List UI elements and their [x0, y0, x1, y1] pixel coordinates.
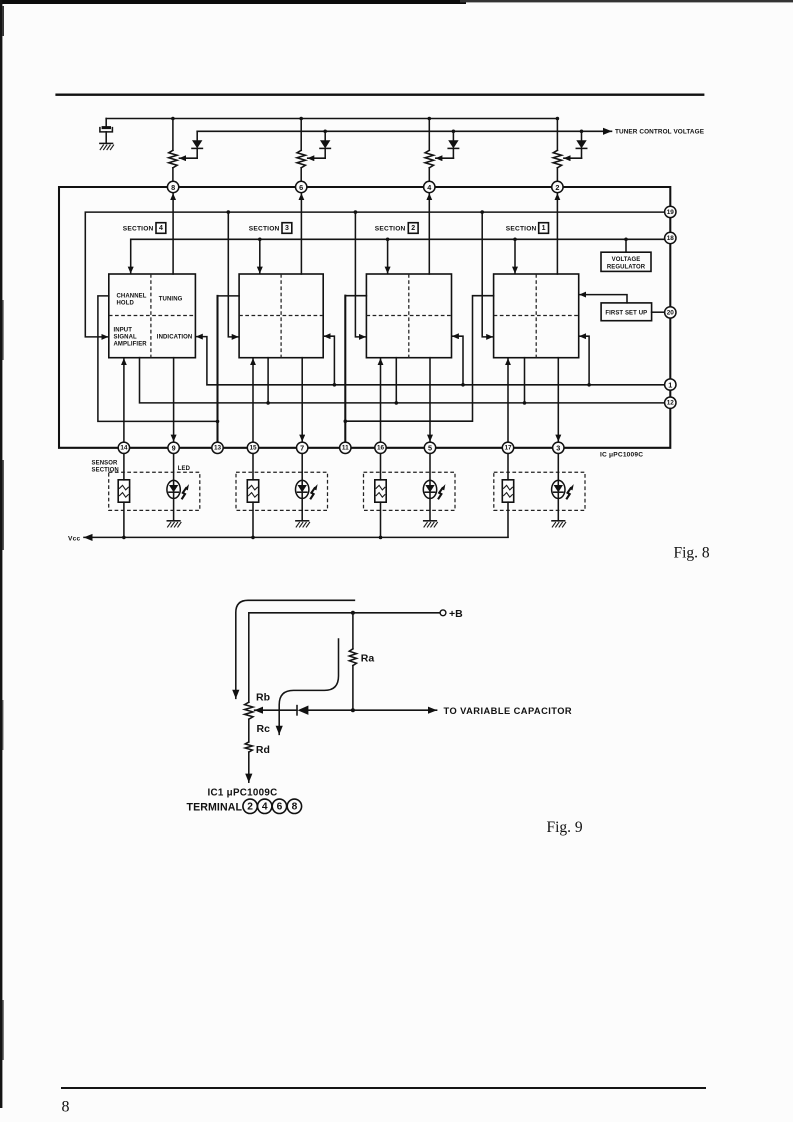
wire: diode to pot wiper arrow — [436, 157, 454, 159]
svg-text:Fig. 9: Fig. 9 — [547, 819, 583, 836]
wire: pin 16 to sensor — [380, 454, 382, 480]
pin 13 — [212, 442, 223, 453]
wire: diode to pot wiper arrow — [179, 157, 197, 159]
wire: riser into section right edge — [324, 336, 334, 385]
wire: first-set-up to section 1 — [580, 295, 627, 303]
svg-text:18: 18 — [667, 235, 675, 242]
svg-text:FIRST SET UP: FIRST SET UP — [605, 311, 647, 317]
wire: section 2 output up to pin 4 — [428, 194, 430, 274]
wire: section 2 down to pin 5 — [429, 358, 431, 442]
functional block: section 2 — [366, 274, 451, 358]
wire: section bottom to pin12 bus x=524.5 — [524, 358, 526, 403]
node: bus junction at x=172.9 — [171, 117, 175, 121]
IC mPC1009C outline box — [59, 187, 670, 448]
svg-text:SECTION: SECTION — [92, 467, 119, 473]
wire: pin19 bus (top internal rail) — [85, 212, 670, 337]
resistor (tuning pot section 3) — [300, 119, 302, 151]
node: bus junction at x=453.4 — [452, 130, 456, 134]
wire: Vcc rail — [84, 536, 508, 538]
wire: pin18 bus (second internal rail) — [131, 239, 671, 273]
wire: section 3 down to pin 7 — [301, 358, 303, 442]
node: pin18 rail junction x=515.0 — [513, 238, 517, 242]
fig9 wire: down to terminals — [248, 752, 250, 782]
wire: LED to ground — [557, 498, 559, 520]
svg-text:SIGNAL: SIGNAL — [114, 335, 138, 341]
fig9 terminal circle 6 — [272, 799, 286, 813]
diode D4 — [196, 131, 198, 140]
node: pin18 rail junction x=387.6 — [386, 238, 390, 242]
svg-text:HOLD: HOLD — [117, 300, 135, 306]
ground under LED 4 — [167, 520, 180, 522]
resistor (tuning pot section 4) — [172, 119, 174, 151]
fig9 wire: +B feed — [249, 613, 440, 702]
fig9 wire: outer feed with down arrow — [236, 600, 355, 698]
svg-text:19: 19 — [667, 209, 675, 216]
pin 20 — [665, 307, 676, 318]
svg-text:1: 1 — [542, 225, 546, 232]
dashed quadrant dividers section 1 — [494, 274, 579, 358]
fig9 wire: S-curve crossover with down arrow — [279, 639, 338, 734]
svg-text:TUNER CONTROL VOLTAGE: TUNER CONTROL VOLTAGE — [615, 129, 705, 136]
wire: section 1 output up to pin 2 — [556, 194, 558, 274]
ground under capacitor — [100, 142, 113, 144]
svg-text:3: 3 — [556, 444, 560, 453]
svg-text:IC μPC1009C: IC μPC1009C — [600, 452, 643, 459]
dashed quadrant dividers section 3 — [239, 274, 323, 358]
svg-text:2: 2 — [247, 801, 253, 812]
pin 3 — [553, 442, 564, 453]
wire: rail droppers into section tops — [259, 239, 261, 273]
pin 12 — [665, 397, 676, 408]
svg-text:4: 4 — [262, 801, 268, 812]
dashed sensor/LED group box 2 — [364, 472, 456, 510]
svg-text:Vcc: Vcc — [68, 535, 80, 542]
svg-text:SECTION: SECTION — [249, 225, 280, 232]
node: Vcc junction x=380.5 — [379, 536, 383, 540]
wire: diode to pot wiper arrow — [308, 157, 326, 159]
ground under LED 3 — [296, 520, 309, 522]
wire: pin11 net to section 1 — [345, 296, 493, 422]
LED 2 — [423, 480, 436, 498]
resistor (tuning pot section 1) — [556, 119, 558, 151]
wire: pin 17 to sensor — [507, 454, 509, 480]
dashed sensor/LED group box 3 — [236, 472, 328, 510]
node: pin1 bus junction x=589.1 — [587, 383, 591, 387]
svg-text:9: 9 — [172, 444, 176, 453]
fig9 wire Rb to Rd — [248, 719, 250, 742]
photo sensor 3 — [247, 480, 258, 502]
pin 15 — [247, 442, 258, 453]
svg-text:Rc: Rc — [257, 723, 271, 735]
ground under LED 2 — [424, 520, 437, 522]
svg-text:2: 2 — [411, 225, 415, 232]
svg-text:CHANNEL: CHANNEL — [117, 293, 147, 299]
wire: section bottom to pin12 bus x=396.3 — [395, 358, 397, 403]
svg-text:14: 14 — [120, 445, 128, 452]
wire: sensor to Vcc rail — [252, 502, 254, 537]
svg-text:4: 4 — [159, 225, 163, 232]
node: pin19 rail junction x=355.4 — [354, 210, 358, 214]
wire: section 3 output up to pin 6 — [300, 194, 302, 274]
svg-text:3: 3 — [285, 225, 289, 232]
pin 2 — [552, 181, 563, 192]
svg-text:SECTION: SECTION — [123, 225, 154, 232]
node: pin19 rail junction x=228.3 — [227, 210, 231, 214]
scan artifact: top edge bar — [0, 0, 466, 4]
svg-text:6: 6 — [277, 801, 283, 812]
pin 7 — [297, 442, 308, 453]
wire: section 4 down to pin 9 — [173, 358, 175, 442]
wire: pin 15 to sensor — [252, 454, 254, 480]
svg-text:Fig. 8: Fig. 8 — [674, 545, 710, 562]
dashed quadrant dividers section 4 — [109, 274, 196, 358]
node: Vcc junction x=123.9 — [122, 536, 126, 540]
wire: pin 14 to sensor — [123, 454, 125, 480]
node: bus junction at x=429.3 — [428, 117, 432, 121]
block: FIRST SET UP — [601, 303, 652, 321]
svg-text:TUNING: TUNING — [159, 296, 183, 302]
fig9 wiper arrow — [255, 709, 297, 711]
capacitor C (tuning voltage filter) — [105, 119, 107, 128]
pin 11 — [340, 442, 351, 453]
block: VOLTAGE REGULATOR — [601, 252, 651, 271]
pin 18 — [665, 232, 676, 243]
fig9 node: Ra tap — [351, 611, 355, 615]
photo sensor 1 — [502, 480, 513, 502]
fig9 resistor Rd — [245, 742, 252, 752]
svg-text:20: 20 — [667, 309, 675, 316]
wire: tuning supply bus (upper) — [106, 118, 557, 120]
wire: pin 3 to LED — [557, 454, 559, 481]
wire: pin 5 to LED — [429, 454, 431, 481]
svg-text:TERMINAL: TERMINAL — [187, 801, 243, 813]
diode D1 — [581, 131, 583, 140]
dashed sensor/LED group box 1 — [494, 472, 585, 510]
svg-text:Ra: Ra — [361, 652, 375, 664]
wire: sensor to Vcc rail — [380, 502, 382, 537]
LED flash arrow — [438, 484, 445, 499]
fig9 terminal circle 2 — [243, 799, 257, 813]
wire: sensor to Vcc rail — [507, 502, 509, 537]
wire: dropper to voltage regulator — [625, 239, 627, 252]
functional block: section 4 — [109, 274, 196, 358]
wire: pin 16 up into section 2 — [380, 359, 382, 442]
wire: LED to ground — [173, 498, 175, 520]
fig9 wire: to variable capacitor — [308, 709, 436, 711]
svg-text:17: 17 — [504, 445, 512, 452]
pin 17 — [502, 442, 513, 453]
photo sensor 4 — [118, 480, 129, 502]
pin 19 — [665, 206, 676, 217]
dashed quadrant dividers section 2 — [366, 274, 451, 358]
LED flash arrow — [310, 484, 317, 499]
wire: pin13 vertical — [216, 296, 218, 442]
wire: pin11 stub into section 2 — [345, 295, 366, 297]
LED flash arrow — [182, 484, 189, 499]
pin 4 — [424, 181, 435, 192]
wire: section bottom to pin12 bus x=268.1 — [267, 358, 269, 403]
scan artifact: left edge strip — [0, 0, 2, 1108]
pin 9 — [168, 442, 179, 453]
wire: riser into section right edge — [452, 336, 463, 385]
bottom rule — [61, 1087, 706, 1089]
svg-text:6: 6 — [299, 183, 303, 192]
svg-text:12: 12 — [667, 400, 675, 407]
svg-text:13: 13 — [214, 445, 222, 452]
svg-text:11: 11 — [342, 445, 349, 452]
wire: pin13 net riser to section 4 — [98, 296, 218, 422]
ground under LED 1 — [552, 520, 565, 522]
svg-text:2: 2 — [555, 183, 559, 192]
svg-text:+B: +B — [449, 608, 463, 620]
wire: pin 9 to LED — [173, 454, 175, 481]
wire: pin 7 to LED — [301, 454, 303, 481]
resistor (tuning pot section 2) — [428, 119, 430, 151]
wire: riser into section right edge — [580, 336, 590, 385]
wire: pin13 stub into section 3 — [218, 295, 240, 297]
LED flash arrow — [566, 484, 573, 499]
wire: LED to ground — [429, 498, 431, 520]
svg-text:16: 16 — [377, 445, 385, 452]
wire: pin 15 up into section 3 — [252, 359, 254, 442]
wire: pin1 indication bus — [196, 337, 664, 385]
wire: pin11 vertical — [344, 296, 346, 442]
svg-text:7: 7 — [300, 444, 304, 453]
pin 1 — [665, 379, 676, 390]
pin 6 — [296, 181, 307, 192]
svg-text:SENSOR: SENSOR — [92, 460, 119, 466]
svg-text:8: 8 — [171, 183, 175, 192]
svg-text:15: 15 — [249, 445, 257, 452]
fig9 terminal +B — [440, 610, 446, 616]
svg-text:Rd: Rd — [256, 744, 270, 756]
wire: diode to pot wiper arrow — [564, 157, 582, 159]
photo sensor 2 — [375, 480, 386, 502]
node: pin19 rail junction x=482.2 — [480, 210, 484, 214]
node: pin1 bus junction x=334.4 — [333, 383, 337, 387]
LED 3 — [296, 480, 309, 498]
fig9 resistor Ra — [352, 613, 354, 649]
svg-text:LED: LED — [178, 466, 191, 472]
node: pin18 rail junction x=626.0 — [624, 238, 628, 242]
svg-text:INPUT: INPUT — [114, 328, 133, 334]
wire: tuner control voltage bus (lower) — [197, 130, 611, 132]
svg-text:IC1 μPC1009C: IC1 μPC1009C — [208, 787, 278, 798]
fig9 potentiometer Rb — [245, 702, 253, 719]
fig9 diode (to variable capacitor) — [296, 706, 298, 715]
functional block: section 3 — [239, 274, 323, 358]
node: Vcc junction x=253.0 — [251, 536, 255, 540]
wire: pin 14 up into section 4 — [123, 359, 125, 442]
LED 4 — [167, 480, 180, 498]
wire: section 4 output up to pin 8 — [172, 194, 174, 274]
node: bus junction at x=325.2 — [323, 130, 327, 134]
wire: sensor to Vcc rail — [123, 502, 125, 537]
svg-text:8: 8 — [62, 1099, 70, 1116]
fig9 terminal circle 8 — [287, 799, 301, 813]
svg-text:AMPLIFIER: AMPLIFIER — [114, 342, 148, 348]
node: pin18 rail junction x=259.8 — [258, 238, 262, 242]
pin 16 — [375, 442, 386, 453]
wire: section 1 down to pin 3 — [557, 358, 559, 442]
svg-text:SECTION: SECTION — [506, 225, 537, 232]
svg-text:REGULATOR: REGULATOR — [607, 264, 646, 270]
svg-text:Rb: Rb — [256, 692, 270, 704]
wire: LED to ground — [301, 498, 303, 520]
wire: pin12 bus — [140, 358, 665, 403]
wire: pin 17 up into section 1 — [507, 359, 509, 442]
svg-text:1: 1 — [668, 381, 672, 390]
svg-text:INDICATION: INDICATION — [157, 334, 193, 340]
dashed sensor/LED group box 4 — [109, 472, 200, 510]
svg-text:5: 5 — [428, 444, 432, 453]
functional block: section 1 — [494, 274, 579, 358]
diode D3 — [324, 131, 326, 140]
pin 5 — [424, 442, 435, 453]
svg-text:8: 8 — [292, 801, 298, 812]
node: bus junction at x=301.2 — [299, 117, 303, 121]
LED 1 — [552, 480, 565, 498]
wire: rail droppers to section left inputs — [228, 212, 238, 337]
fig9 terminal circle 4 — [258, 799, 272, 813]
node: bus junction at x=581.5 — [580, 130, 584, 134]
svg-text:VOLTAGE: VOLTAGE — [612, 257, 641, 263]
top rule — [55, 94, 704, 96]
svg-text:SECTION: SECTION — [375, 225, 406, 232]
diode D2 — [452, 131, 454, 140]
pin 8 — [167, 181, 178, 192]
wire: first-set-up to pin 20 — [652, 311, 665, 313]
node: pin1 bus junction x=463.0 — [461, 383, 465, 387]
svg-text:TO VARIABLE CAPACITOR: TO VARIABLE CAPACITOR — [444, 706, 573, 716]
pin 14 — [118, 442, 129, 453]
